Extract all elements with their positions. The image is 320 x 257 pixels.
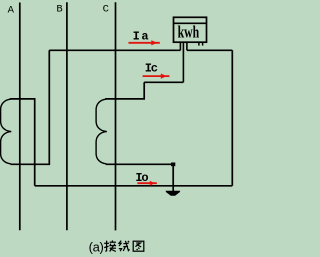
caption hanzi 接 [104,240,116,251]
caption hanzi 线 [119,241,130,252]
meter stub pin 5 [202,42,204,45]
wire: drop from junction to ground [172,164,174,191]
wire: right side riser from meter pin 3 [231,50,233,186]
wire: CT2 top terminal horizontal [105,98,145,100]
current label Ic [145,62,158,76]
wire: phase line C [115,2,117,230]
svg-text:c: c [151,62,158,76]
current label Ia [133,30,149,44]
meter pin 3 [186,42,188,50]
wire: CT1 bottom terminal horizontal [11,163,51,165]
current arrow Io (red) [137,181,156,186]
svg-text:C: C [103,4,109,16]
wire: Ia riser up to meter [48,50,50,164]
current transformer CT2 (phase C) winding arcs [96,99,107,164]
svg-text:I: I [133,30,140,44]
meter pin 2 [182,42,184,82]
wire: meter pin 3 horizontal to right riser [187,49,232,51]
wire: phase line B [66,2,68,230]
meter stub pin 4 [198,42,200,45]
ground symbol [166,191,181,196]
current transformer CT1 (phase A) winding arcs [1,99,12,164]
wire: CT1 common riser down to neutral wire [34,99,36,186]
wire: Ic horizontal to meter pin 2 [144,81,183,83]
node: junction dot at Io point [171,163,175,167]
meter pin 1 [179,42,181,50]
wire: neutral/common horizontal [35,185,233,187]
svg-text:B: B [56,3,62,15]
wire: Ia horizontal to meter pin 1 [49,49,180,51]
svg-text:kwh: kwh [178,23,200,42]
current arrow Ia (red) [129,40,160,45]
wire: CT1 top terminal horizontal [10,98,36,100]
wire: phase line A [19,3,21,231]
current arrow Ic (red) [143,74,170,79]
svg-text:A: A [8,4,15,16]
kWh meter U1 box [174,17,207,42]
kWh meter U1 divider line [174,22,207,24]
svg-text:a: a [141,30,148,44]
svg-text:(a): (a) [89,240,104,255]
wire: Ic riser [143,82,145,99]
caption hanzi 图 [133,241,144,251]
current label Io [135,171,148,185]
wire: CT2 bottom horizontal to junction [106,163,173,165]
